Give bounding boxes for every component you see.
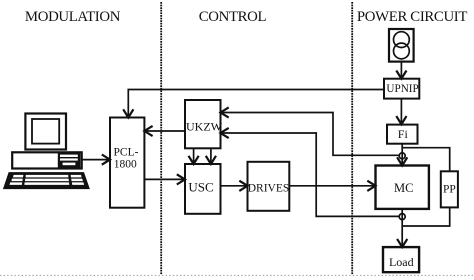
svg-text:Load: Load — [389, 255, 414, 269]
wire UKZW to PCL-1800 — [145, 130, 185, 132]
block Load — [383, 247, 419, 272]
svg-text:PP: PP — [443, 184, 456, 196]
block USC — [185, 164, 221, 214]
block UKZW — [185, 100, 223, 148]
arrow into UKZW right (upper) — [221, 107, 229, 117]
block PCL-1800 — [110, 118, 144, 208]
wire DRIVES to MC — [289, 185, 374, 187]
wire PC to PCL-1800 — [82, 159, 109, 161]
arrow into MC top — [397, 157, 407, 165]
arrow into Load top — [397, 239, 407, 247]
wire UKZW to USC (right branch) — [210, 148, 212, 163]
svg-text:1800: 1800 — [114, 159, 137, 171]
arrow into PCL-1800 left — [102, 155, 110, 165]
dashed separator between MODULATION and CONTROL — [160, 2, 162, 275]
arrow into Fi top — [396, 116, 406, 124]
wire node above MC to UKZW (upper feedback) — [222, 113, 400, 156]
wire branch Fi line to PP top — [402, 148, 450, 172]
wire Fi to MC with branch to PP top — [401, 144, 403, 166]
wire node below MC to UKZW (lower feedback) — [222, 133, 400, 216]
dashed separator between CONTROL and POWER CIRCUIT — [351, 2, 353, 275]
wire UPNIP to Fi — [400, 99, 402, 124]
svg-text:Fi: Fi — [398, 127, 409, 141]
block Fi — [387, 125, 418, 144]
svg-text:PCL-: PCL- — [114, 147, 139, 159]
arrow into PCL-1800 top — [123, 109, 133, 117]
computer PC (system unit) — [12, 152, 82, 168]
arrow into USC top (left) — [189, 156, 199, 164]
arrow into UPNIP top — [396, 71, 406, 79]
wire power source to UPNIP — [400, 62, 402, 78]
svg-text:MC: MC — [394, 181, 413, 195]
node above MC (circle junction) — [399, 153, 405, 159]
node below MC (circle junction) — [399, 214, 405, 220]
svg-text:CONTROL: CONTROL — [199, 9, 267, 25]
wire UPNIP to PCL-1800 (top long line) — [128, 90, 384, 117]
computer PC (monitor) — [25, 114, 66, 150]
arrow into UKZW right (lower) — [221, 128, 229, 138]
svg-text:UKZW: UKZW — [186, 119, 223, 133]
arrow into PCL-1800 right — [144, 126, 152, 136]
arrow into USC left — [177, 174, 185, 184]
wire UKZW to USC (left branch) — [193, 148, 195, 163]
block DRIVES — [248, 162, 290, 211]
svg-text:MODULATION: MODULATION — [25, 9, 121, 25]
computer PC (keyboard) — [4, 173, 90, 189]
arrow into DRIVES left — [239, 181, 247, 191]
arrow into MC left — [367, 181, 375, 191]
wire PP bottom to Load line — [402, 207, 450, 226]
svg-text:UPNIP: UPNIP — [386, 83, 418, 95]
power source symbol (box with two overlapping circles) — [389, 29, 414, 62]
bottom dotted border — [0, 274, 474, 276]
block UPNIP — [384, 79, 419, 99]
svg-text:USC: USC — [188, 179, 213, 194]
wire USC to DRIVES — [221, 185, 247, 187]
arrow into USC top (right) — [206, 156, 216, 164]
block MC — [376, 166, 429, 209]
wire MC bottom to Load with node — [401, 209, 403, 247]
svg-text:DRIVES: DRIVES — [248, 182, 290, 194]
block PP — [441, 171, 458, 207]
wire PCL-1800 to USC — [144, 178, 184, 180]
svg-text:POWER CIRCUIT: POWER CIRCUIT — [357, 9, 467, 25]
